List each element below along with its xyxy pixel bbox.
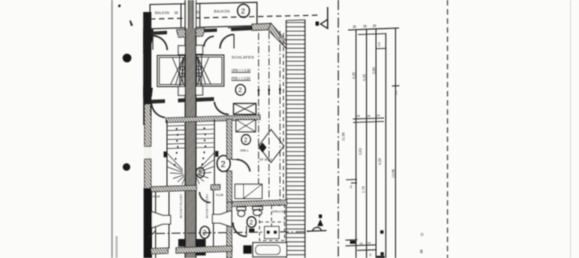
svg-text:2,86: 2,86 xyxy=(372,67,376,74)
svg-text:ABSTELLRAUM: ABSTELLRAUM xyxy=(179,194,183,219)
section marker A bottom xyxy=(307,215,327,232)
svg-text:35: 35 xyxy=(174,11,178,15)
balcony dashed line xyxy=(150,15,318,19)
dim vertical 3 xyxy=(375,29,377,258)
stair right flight treads xyxy=(196,125,215,184)
nightstand right-top xyxy=(196,45,203,54)
svg-text:4,35: 4,35 xyxy=(363,74,367,81)
circled 2 lower xyxy=(200,226,210,238)
left exterior wall dark band upper xyxy=(143,12,151,125)
dim tick y86 xyxy=(392,85,400,87)
wall below stairs xyxy=(151,185,197,192)
door arc hall to room xyxy=(232,160,250,172)
punch hole lower xyxy=(123,163,131,171)
svg-text:1,76: 1,76 xyxy=(362,186,366,193)
door niche right xyxy=(213,211,232,228)
nightstand left-top xyxy=(178,46,185,55)
dim top line xyxy=(348,28,399,30)
nightstand right-bottom xyxy=(196,86,203,95)
svg-text:OFB+2,575: OFB+2,575 xyxy=(272,210,286,214)
shower dashed box xyxy=(260,206,285,241)
stair step numbers left xyxy=(174,128,179,166)
bathtub xyxy=(253,243,287,257)
stair top wall hatched xyxy=(166,115,260,123)
dim tick row y34 xyxy=(358,34,387,35)
label under circle xyxy=(249,229,255,232)
svg-text:4,39: 4,39 xyxy=(378,158,382,165)
svg-text:24: 24 xyxy=(349,185,353,189)
svg-text:2: 2 xyxy=(238,87,242,94)
svg-text:24: 24 xyxy=(377,113,381,117)
bedroom-right bottom wall xyxy=(196,97,214,102)
stair left boundary xyxy=(166,120,168,186)
door arc hall to bath xyxy=(233,223,247,237)
faint crease streak bottom-left xyxy=(116,236,118,258)
svg-text:1,0: 1,0 xyxy=(394,91,398,95)
left exterior wall mid (hatched lighter) xyxy=(145,104,152,190)
label OFB line xyxy=(232,69,251,73)
dashed line left of roof strip xyxy=(282,33,284,200)
svg-text:FLUR: FLUR xyxy=(153,195,160,199)
balcony divider line right xyxy=(195,4,199,27)
left exterior wall dark band lower xyxy=(144,188,152,258)
balcony outline xyxy=(150,2,257,29)
svg-text:FLUR: FLUR xyxy=(216,193,223,197)
scan speck top-left corner xyxy=(118,4,121,7)
bedroom-left bottom wall xyxy=(151,99,165,103)
dim vertical 5 xyxy=(395,28,397,258)
nightstand left-bottom xyxy=(178,87,185,96)
roof/ladder strip xyxy=(286,20,305,258)
svg-text:24: 24 xyxy=(357,114,361,118)
bed right xyxy=(196,55,224,86)
dim tick y179 xyxy=(346,178,357,180)
stair right boundary xyxy=(213,119,215,186)
jamb block stair left xyxy=(164,152,167,158)
faint right paper edge xyxy=(570,0,572,258)
hall right wall vertical xyxy=(227,119,232,159)
party wall xyxy=(185,0,196,258)
small fixture rect xyxy=(265,227,280,239)
dim bottom ticks xyxy=(346,239,358,241)
svg-text:2: 2 xyxy=(241,7,245,16)
party wall wing left xyxy=(177,29,186,37)
hatched band diagonal to roof strip xyxy=(268,23,287,48)
svg-text:DF 26/14: DF 26/14 xyxy=(260,158,273,162)
svg-text:3,63: 3,63 xyxy=(359,148,363,155)
svg-text:24: 24 xyxy=(367,114,371,118)
svg-text:24: 24 xyxy=(368,241,372,245)
svg-text:SCHLAFEN: SCHLAFEN xyxy=(232,56,255,60)
dim vertical 2 xyxy=(366,29,368,258)
circled 2 stair small xyxy=(196,168,204,178)
bathroom top wall xyxy=(232,200,287,207)
stair left flight treads xyxy=(167,126,186,185)
faint marks right of dims xyxy=(420,233,423,236)
bed lower right room xyxy=(235,184,262,198)
svg-text:24: 24 xyxy=(360,241,364,245)
lower-left room inner wall xyxy=(168,192,170,249)
svg-text:13,98: 13,98 xyxy=(392,169,396,178)
lower-right room inner wall xyxy=(212,191,214,248)
svg-text:4,35: 4,35 xyxy=(352,72,356,79)
top wall right double line xyxy=(228,27,252,28)
svg-text:OFB = + 2.80: OFB = + 2.80 xyxy=(232,69,251,73)
heater block right xyxy=(196,239,206,256)
section marker B top xyxy=(316,7,328,29)
dim tick y48 xyxy=(376,47,387,49)
svg-text:ABSTELLRAUM: ABSTELLRAUM xyxy=(205,194,209,219)
svg-text:2,0: 2,0 xyxy=(377,42,381,47)
dark tile block xyxy=(243,245,251,253)
jamb block stair right xyxy=(215,151,218,157)
paper left edge line xyxy=(111,0,113,258)
circled 2 hall large xyxy=(217,156,230,172)
bed left xyxy=(157,55,185,86)
svg-text:BALKON: BALKON xyxy=(155,11,170,15)
svg-text:OFB 1: OFB 1 xyxy=(240,149,249,153)
skylight diamond xyxy=(259,130,285,163)
label FFB line xyxy=(232,77,251,81)
door arc bedroom-right top xyxy=(220,35,234,49)
scan smudge top-left xyxy=(130,20,134,26)
svg-text:2: 2 xyxy=(203,230,207,237)
svg-text:35: 35 xyxy=(353,25,357,29)
chimney X-box lower xyxy=(236,120,256,132)
dim vertical 4 xyxy=(385,34,387,258)
chimney X-box upper xyxy=(234,103,257,114)
sink xyxy=(253,206,263,215)
stair step numbers right xyxy=(202,128,207,166)
section dash-dot line lower xyxy=(148,231,310,239)
toilet xyxy=(237,207,246,217)
lower room right wall hatched xyxy=(227,202,232,258)
heater block left xyxy=(178,239,185,247)
small arrows on roof lines xyxy=(257,88,259,96)
svg-text:FFB = + 2.60: FFB = + 2.60 xyxy=(232,77,251,81)
section line vertical dash-dot xyxy=(337,0,339,258)
party wall wing right xyxy=(196,29,205,37)
door arc bedroom-left top xyxy=(153,36,167,50)
building top wall xyxy=(151,31,167,35)
door arc bedroom-left bottom xyxy=(150,103,167,118)
svg-text:11,98: 11,98 xyxy=(342,132,346,141)
door arc stair to flur xyxy=(200,192,211,203)
circled 2 bath xyxy=(247,217,256,228)
circled 2 right room xyxy=(241,135,250,145)
dim tick rows y118-122 xyxy=(353,118,384,119)
door niche left xyxy=(152,212,171,229)
punch hole upper xyxy=(123,54,132,63)
hatched band top-right horizontal xyxy=(252,23,272,30)
svg-text:2: 2 xyxy=(249,220,253,227)
fold dashed line xyxy=(447,0,449,258)
door arc bedroom-right bottom xyxy=(214,102,229,115)
svg-text:BALKON: BALKON xyxy=(214,10,230,14)
party wall balcony narrowing xyxy=(186,0,188,28)
svg-text:2: 2 xyxy=(221,159,226,169)
bottom wall hatched left rooms xyxy=(151,248,168,254)
dim vertical 1 xyxy=(355,30,357,258)
svg-text:3: 3 xyxy=(369,253,371,257)
balcony divider line left xyxy=(174,4,181,27)
lower room left walls outline xyxy=(155,192,157,258)
circled 2 bedroom xyxy=(236,84,246,95)
roof slope dashed lines xyxy=(258,33,260,204)
circled 2 balcony xyxy=(238,4,250,17)
door arc bedroom-left companion xyxy=(204,36,214,46)
svg-text:35: 35 xyxy=(373,24,377,28)
svg-text:35: 35 xyxy=(363,24,367,28)
